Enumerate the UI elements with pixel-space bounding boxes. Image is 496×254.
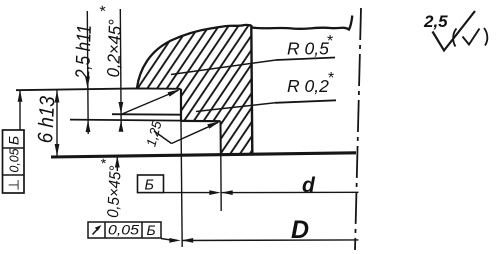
perpendicularity tolerance frame (3, 130, 25, 193)
dimension 6 h13 line (56, 91, 58, 156)
svg-text:2,5: 2,5 (423, 12, 448, 31)
leader R 0,2 (196, 103, 275, 112)
perpendicularity frame leader (19, 91, 21, 131)
parenthesized check (453, 29, 456, 47)
runout tolerance frame (88, 222, 161, 238)
groove wall D edge (180, 89, 182, 121)
svg-text:d: d (302, 174, 316, 197)
groove bottom line D-left (70, 120, 181, 121)
svg-text:Б: Б (145, 178, 154, 194)
roughness check symbol (433, 11, 476, 51)
surface line y=89 (16, 88, 181, 90)
dimension D line (182, 239, 359, 242)
runout symbol arrow (93, 227, 100, 235)
svg-text:1,25: 1,25 (143, 119, 164, 148)
svg-text:*: * (328, 70, 334, 87)
svg-text:*: * (97, 157, 114, 166)
centerline (355, 8, 361, 250)
step wall d (220, 121, 222, 154)
chamfer edge line C (112, 113, 181, 116)
svg-text:0,05: 0,05 (8, 148, 22, 172)
dimension 0,2x45 line (119, 9, 122, 131)
tick stroke (154, 131, 172, 144)
svg-text:Б: Б (147, 222, 156, 238)
svg-text:*: * (327, 33, 333, 50)
arrow up at groove bottom (86, 120, 91, 132)
extension line D (181, 121, 182, 247)
datum leader (164, 192, 213, 194)
svg-text:R 0,5: R 0,5 (287, 39, 329, 59)
svg-text:R 0,2: R 0,2 (287, 76, 329, 96)
groove bottom face (181, 120, 221, 122)
section hatch (body of part) (137, 25, 252, 154)
bottom surface line (51, 153, 356, 157)
label 0,5x45 with arrow (116, 156, 118, 171)
dimension d line (221, 191, 359, 193)
section boundary vertical (251, 25, 252, 154)
datum frame B (138, 175, 164, 193)
svg-text:*: * (97, 5, 115, 14)
extension line d (220, 154, 222, 211)
leader R 0,5 (171, 60, 276, 75)
top surface wavy line (252, 16, 352, 30)
arrow down at line C (119, 102, 124, 114)
leader to corner d (172, 123, 219, 144)
svg-text:0,5×45°: 0,5×45° (105, 165, 125, 218)
svg-text:0,2×45°: 0,2×45° (103, 19, 125, 78)
svg-text:2,5 h11: 2,5 h11 (72, 24, 96, 80)
leader to chamfer corner (122, 90, 178, 114)
svg-text:Б: Б (6, 136, 22, 145)
frame leader to D extension (161, 239, 172, 241)
arrow up at line D (119, 120, 124, 131)
dimension 2,5 h11 line (86, 11, 89, 134)
svg-text:⊥: ⊥ (6, 179, 22, 191)
svg-text:D: D (291, 216, 309, 244)
arrow down at surface (85, 77, 90, 89)
svg-text:6 h13: 6 h13 (34, 95, 59, 143)
break line (wavy outline of hump) (137, 25, 252, 88)
svg-text:0,05: 0,05 (108, 223, 140, 238)
